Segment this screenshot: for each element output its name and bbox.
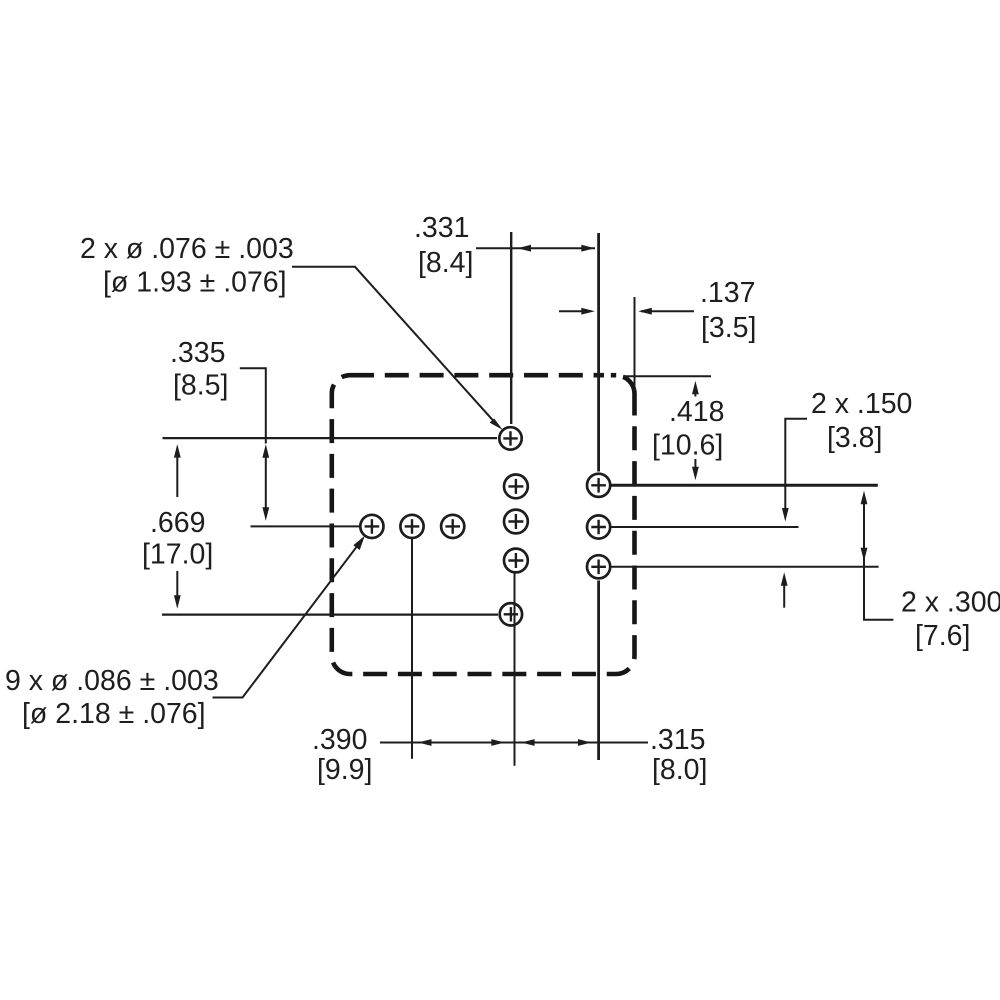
- hole L3 (left row): [441, 515, 464, 538]
- hole R3 (right column): [587, 555, 610, 578]
- hole L1 (left row): [360, 515, 383, 538]
- body outline right/bottom/left edges (dashed): [332, 375, 635, 674]
- svg-text:[8.5]: [8.5]: [173, 370, 228, 402]
- svg-text:.315: .315: [650, 724, 705, 756]
- hole H-bottom (2x ø.076 hole, lower): [500, 603, 522, 625]
- body outline top edge (dashed): [350, 373, 604, 378]
- reference line y=526.4 (left hole row, to the left): [251, 525, 360, 527]
- extension line x=598.6 (right column centerline, upper part): [597, 233, 600, 472]
- hole M2 (middle column): [504, 510, 528, 534]
- arrowhead at x=598.6 pointing right: [578, 739, 592, 746]
- dimension .418 lower arrow (pointing down): [694, 459, 696, 470]
- svg-text:.137: .137: [700, 277, 755, 309]
- svg-text:[7.6]: [7.6]: [915, 620, 970, 652]
- dimension 2x.300 shaft with both arrowheads and bracket: [864, 502, 893, 620]
- extension line x=514.5 (down from hole M3 through bottom hole): [514, 574, 516, 766]
- hole L2 (left row): [400, 515, 423, 538]
- hole H-top (2x ø.076 hole, upper): [499, 427, 521, 449]
- svg-text:.418: .418: [669, 396, 724, 428]
- row line R2 (to the right): [611, 526, 799, 528]
- svg-text:[10.6]: [10.6]: [652, 430, 723, 462]
- dimension .137 left shaft with right-pointing arrowhead: [559, 310, 591, 312]
- svg-text:2 x .150: 2 x .150: [811, 388, 912, 420]
- dimension 2x.150 bracket and upper shaft with down arrowhead: [785, 419, 807, 509]
- dimension .331 arrowhead right: [581, 245, 595, 252]
- extension line x=511 (top hole centerline up): [510, 232, 512, 424]
- body outline centerline dot on top edge: [611, 373, 616, 378]
- hole R2 (right column): [587, 515, 610, 538]
- svg-text:9 x ø .086 ± .003: 9 x ø .086 ± .003: [5, 665, 219, 697]
- arrowhead at x=514 pointing right: [491, 739, 505, 746]
- svg-text:[9.9]: [9.9]: [317, 754, 372, 786]
- hole M1 (middle column): [504, 475, 528, 499]
- dimension .669 shaft segments and arrowheads: [176, 455, 178, 497]
- svg-text:[3.5]: [3.5]: [701, 312, 756, 344]
- dimension .331 shaft: [476, 247, 595, 249]
- row line R3 (to the right): [611, 566, 879, 568]
- bottom dimension shaft (.390 / .315): [380, 742, 648, 744]
- svg-text:[ø 1.93 ± .076]: [ø 1.93 ± .076]: [103, 267, 287, 299]
- reference line y=438.1 (top hole row, to the left): [163, 437, 498, 439]
- body outline top-right corner piece: [623, 377, 634, 416]
- dimension 2x.150 lower shaft with up arrowhead: [783, 584, 785, 608]
- svg-text:.390: .390: [312, 724, 367, 756]
- svg-text:.669: .669: [150, 507, 205, 539]
- reference line y=614.6 (bottom hole row, to the left): [162, 613, 498, 615]
- svg-text:[17.0]: [17.0]: [142, 539, 213, 571]
- svg-text:[3.8]: [3.8]: [827, 422, 882, 454]
- extension line x=598.6 (right column centerline, lower part): [597, 581, 600, 761]
- svg-text:2 x ø .076 ± .003: 2 x ø .076 ± .003: [80, 233, 294, 265]
- svg-text:[8.4]: [8.4]: [418, 247, 473, 279]
- dimension .331 arrowhead left: [518, 245, 532, 252]
- svg-text:[8.0]: [8.0]: [652, 754, 707, 786]
- arrowhead at x=412 pointing left: [418, 739, 432, 746]
- extension line y=376 (body top edge to right): [623, 375, 711, 377]
- hole M3 (middle column): [504, 549, 528, 573]
- arrowhead at x=514 pointing left: [521, 739, 535, 746]
- dimension .335 bracket, shaft and arrowheads: [240, 368, 266, 509]
- dimension .137 right shaft with left-pointing arrowhead: [641, 310, 694, 312]
- svg-text:[ø 2.18 ± .076]: [ø 2.18 ± .076]: [22, 698, 206, 730]
- row line R1 (to the right): [611, 484, 878, 487]
- extension line x=412 (down from hole L2): [411, 538, 413, 759]
- svg-text:.331: .331: [414, 212, 469, 244]
- svg-text:2 x .300: 2 x .300: [901, 587, 1000, 619]
- extension line x=634.5 (body right edge up): [634, 297, 636, 391]
- leader for 2x ø.076 callout with arrowhead: [292, 267, 496, 423]
- dimension .418 upper arrow (pointing up): [694, 390, 696, 397]
- leader for 9x ø.086 callout with arrowhead: [213, 544, 359, 697]
- hole R1 (right column): [587, 474, 610, 497]
- svg-text:.335: .335: [170, 337, 225, 369]
